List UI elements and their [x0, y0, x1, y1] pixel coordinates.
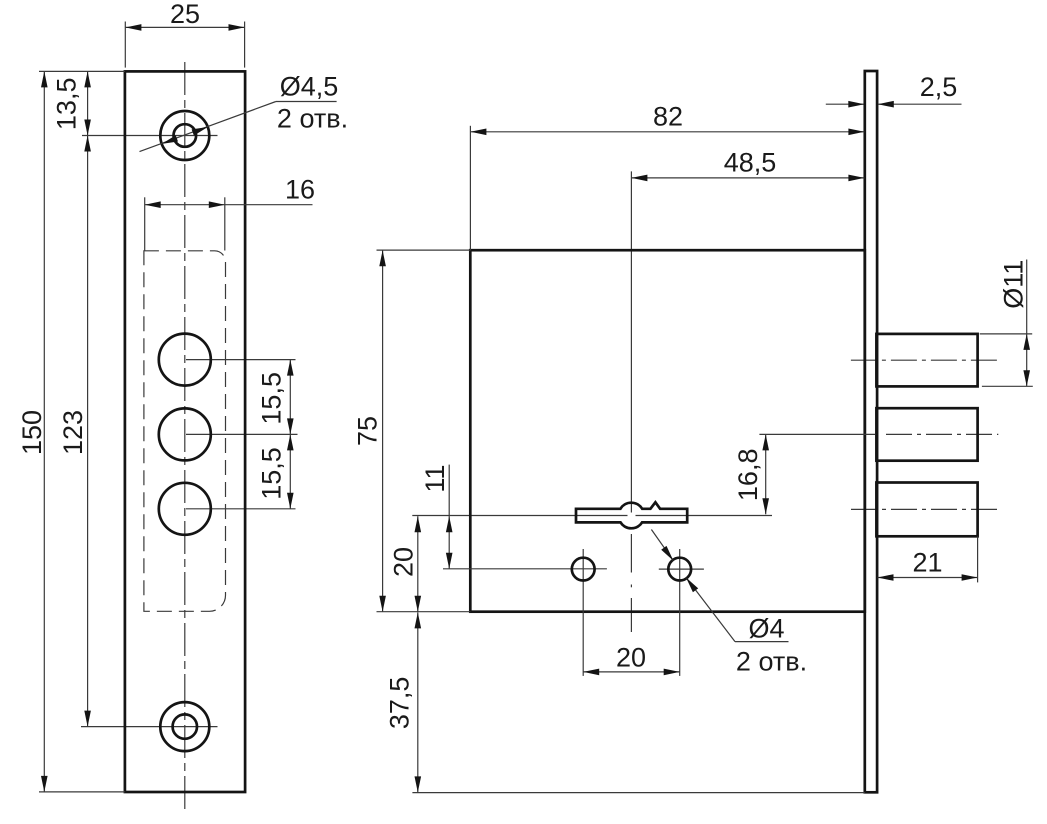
dim 2,5	[826, 103, 864, 105]
svg-text:2,5: 2,5	[920, 72, 958, 102]
dim 13,5	[87, 71, 89, 135]
dim 123	[87, 136, 89, 727]
keyhole	[576, 502, 687, 528]
top screw hole centerline horizontal	[82, 135, 218, 137]
bolt 2 centerline	[886, 433, 998, 435]
svg-text:15,5: 15,5	[256, 447, 286, 500]
bolt 3	[876, 483, 977, 537]
leader dia 4,5	[140, 102, 276, 152]
svg-text:75: 75	[352, 416, 382, 446]
svg-text:20: 20	[388, 547, 418, 577]
dim 20 vertical	[417, 516, 419, 612]
dim 37,5	[417, 612, 419, 792]
bolt 3 centerline	[851, 508, 1000, 510]
bolt hole circle 3	[159, 483, 211, 535]
dim 21	[878, 577, 978, 579]
dim 82	[470, 131, 864, 133]
centerline faceplate vertical	[184, 62, 186, 814]
bolt 2	[876, 408, 977, 461]
faceplate front outline	[125, 71, 245, 792]
dim 11	[448, 465, 450, 569]
bolt 1	[876, 334, 977, 387]
bottom screw hole inner	[173, 714, 197, 738]
dim 75	[382, 250, 384, 611]
svg-text:11: 11	[420, 465, 450, 493]
bolt hole circle 2	[159, 408, 211, 460]
small hole right centerline vertical	[679, 549, 681, 676]
svg-text:2 отв.: 2 отв.	[736, 646, 807, 676]
small holes centerline horizontal	[443, 568, 607, 570]
small hole left centerline vertical	[582, 549, 584, 676]
svg-text:15,5: 15,5	[256, 372, 286, 425]
hidden pocket dashed outline	[144, 251, 226, 612]
svg-text:150: 150	[17, 410, 47, 455]
lock body outline	[470, 250, 865, 612]
bolt hole circle 1	[159, 334, 211, 386]
svg-text:123: 123	[58, 410, 88, 455]
bolt 1 centerline	[851, 359, 1000, 361]
bolt circle 3 centerline	[186, 508, 296, 510]
dim dia 11	[1026, 260, 1028, 387]
dim 25	[125, 26, 244, 28]
svg-text:25: 25	[170, 0, 200, 29]
bolt circle 2 centerline	[186, 433, 298, 435]
svg-text:Ø11: Ø11	[998, 260, 1028, 309]
top screw hole outer	[160, 111, 209, 160]
svg-text:13,5: 13,5	[51, 78, 81, 131]
dim 150	[43, 71, 45, 792]
keyhole vertical centerline	[630, 171, 632, 512]
svg-text:2 отв.: 2 отв.	[277, 104, 348, 134]
svg-text:16,8: 16,8	[733, 449, 763, 502]
leader dia 4	[651, 530, 673, 561]
keyhole horizontal centerline	[412, 515, 627, 517]
svg-text:Ø4: Ø4	[748, 613, 784, 643]
bolt circle 1 centerline	[186, 359, 296, 361]
svg-text:48,5: 48,5	[724, 148, 777, 178]
bottom screw hole outer	[160, 702, 209, 751]
dim 20 bottom	[583, 671, 680, 673]
svg-text:16: 16	[285, 174, 315, 204]
svg-text:21: 21	[912, 547, 942, 577]
dim 16	[145, 204, 313, 206]
small hole right centerline horizontal	[659, 568, 704, 570]
svg-text:37,5: 37,5	[384, 677, 414, 730]
svg-text:20: 20	[616, 642, 646, 672]
svg-text:82: 82	[653, 101, 683, 131]
dim 16,8	[765, 434, 767, 514]
dim 15,5 upper	[289, 360, 291, 435]
dim 48,5	[631, 177, 864, 179]
small hole right	[668, 558, 691, 581]
svg-text:Ø4,5: Ø4,5	[280, 71, 339, 101]
bottom screw hole centerline horizontal	[81, 726, 218, 728]
top screw hole inner	[174, 124, 197, 147]
small hole left	[572, 558, 595, 581]
faceplate side strip	[865, 71, 877, 792]
dim 15,5 lower	[289, 434, 291, 508]
